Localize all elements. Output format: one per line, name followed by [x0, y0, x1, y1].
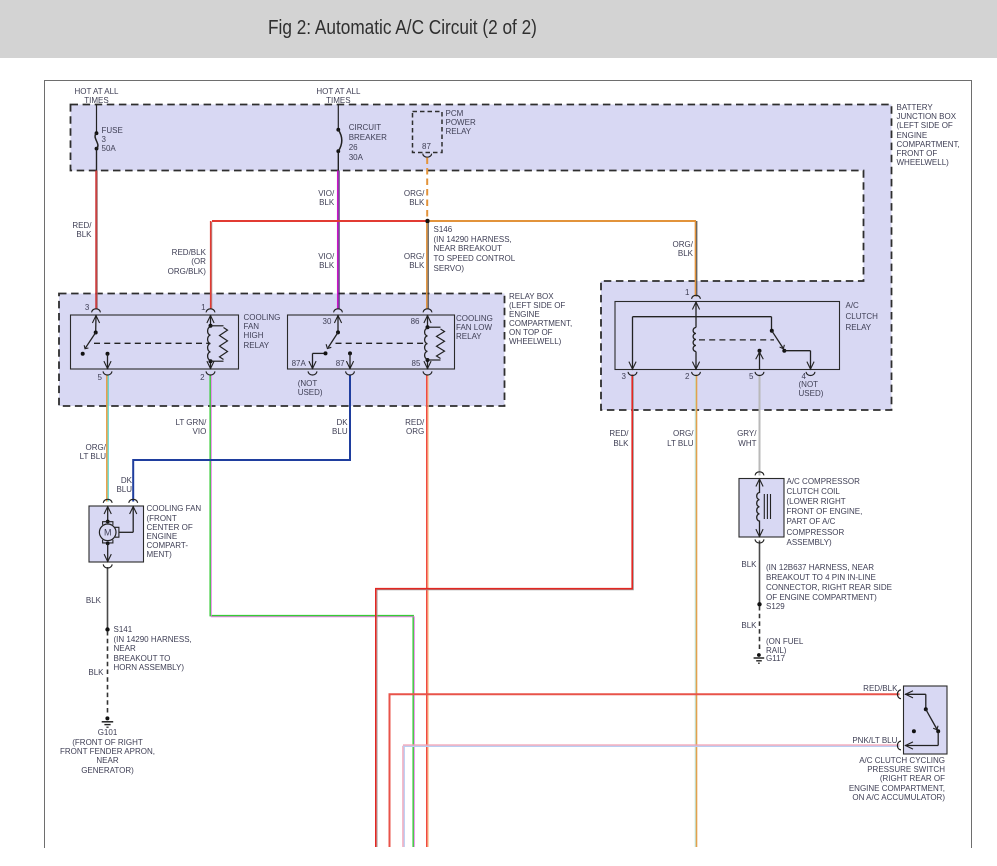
- svg-text:M: M: [104, 528, 112, 538]
